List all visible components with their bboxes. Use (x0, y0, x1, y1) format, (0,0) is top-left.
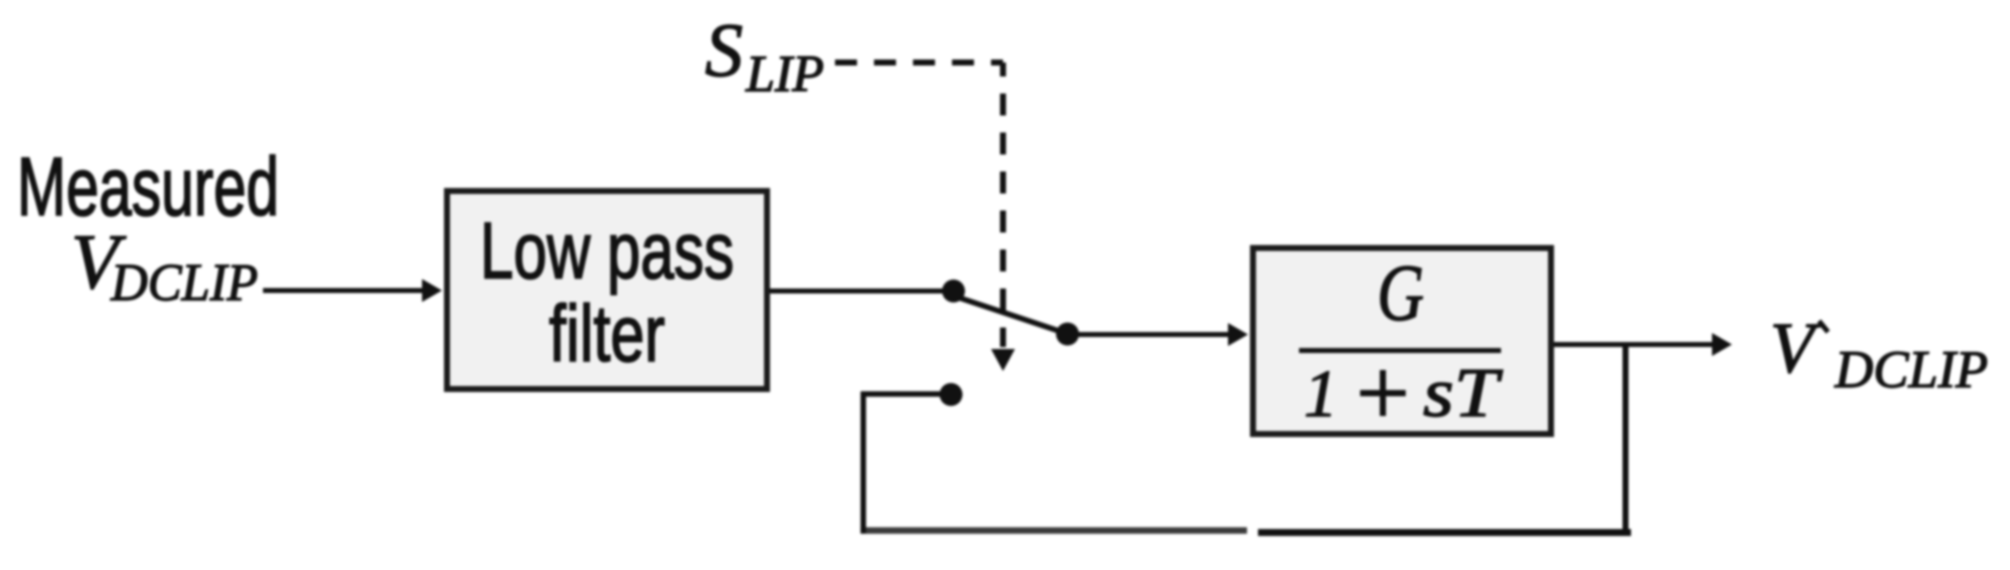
node V'DCLIP output label (1770, 308, 1988, 399)
wire feedback vertical drop (1623, 344, 1629, 536)
node SLIP control label (705, 9, 824, 103)
wire feedback bottom right segment (1258, 529, 1631, 536)
svg-text:1: 1 (1304, 357, 1338, 431)
svg-text:+: + (1350, 340, 1414, 446)
svg-text:DCLIP: DCLIP (110, 254, 258, 312)
node switch pole contact (942, 280, 965, 303)
wire input arrow into low pass filter (263, 279, 442, 302)
wire output arrow (1554, 333, 1732, 356)
svg-text:DCLIP: DCLIP (1834, 341, 1988, 399)
node label Measured (17, 140, 279, 233)
wire feedback bottom left segment (861, 527, 1248, 534)
wire SLIP dashed horizontal (835, 60, 1003, 66)
wire SLIP dashed vertical with arrow (991, 63, 1015, 372)
node switch lower contact (940, 383, 963, 406)
svg-text:LIP: LIP (745, 46, 824, 103)
svg-text:S: S (705, 9, 743, 93)
wire switch to G block with arrow (1068, 323, 1248, 346)
svg-text:filter: filter (549, 289, 665, 378)
wire feedback left riser (861, 392, 867, 534)
svg-text:sT: sT (1423, 355, 1504, 432)
node VDCLIP input label (71, 218, 258, 312)
switch blade (951, 295, 1068, 334)
wire riser to lower contact (861, 391, 950, 397)
node switch common contact (1056, 323, 1079, 346)
svg-text:G: G (1377, 250, 1424, 338)
block Low pass filter (447, 191, 767, 389)
svg-text:Measured: Measured (17, 140, 279, 233)
svg-text:V: V (1770, 308, 1821, 388)
wire filter output to switch pole (770, 289, 953, 294)
block G/(1+sT) (1253, 248, 1551, 446)
svg-text:Low pass: Low pass (480, 206, 734, 295)
